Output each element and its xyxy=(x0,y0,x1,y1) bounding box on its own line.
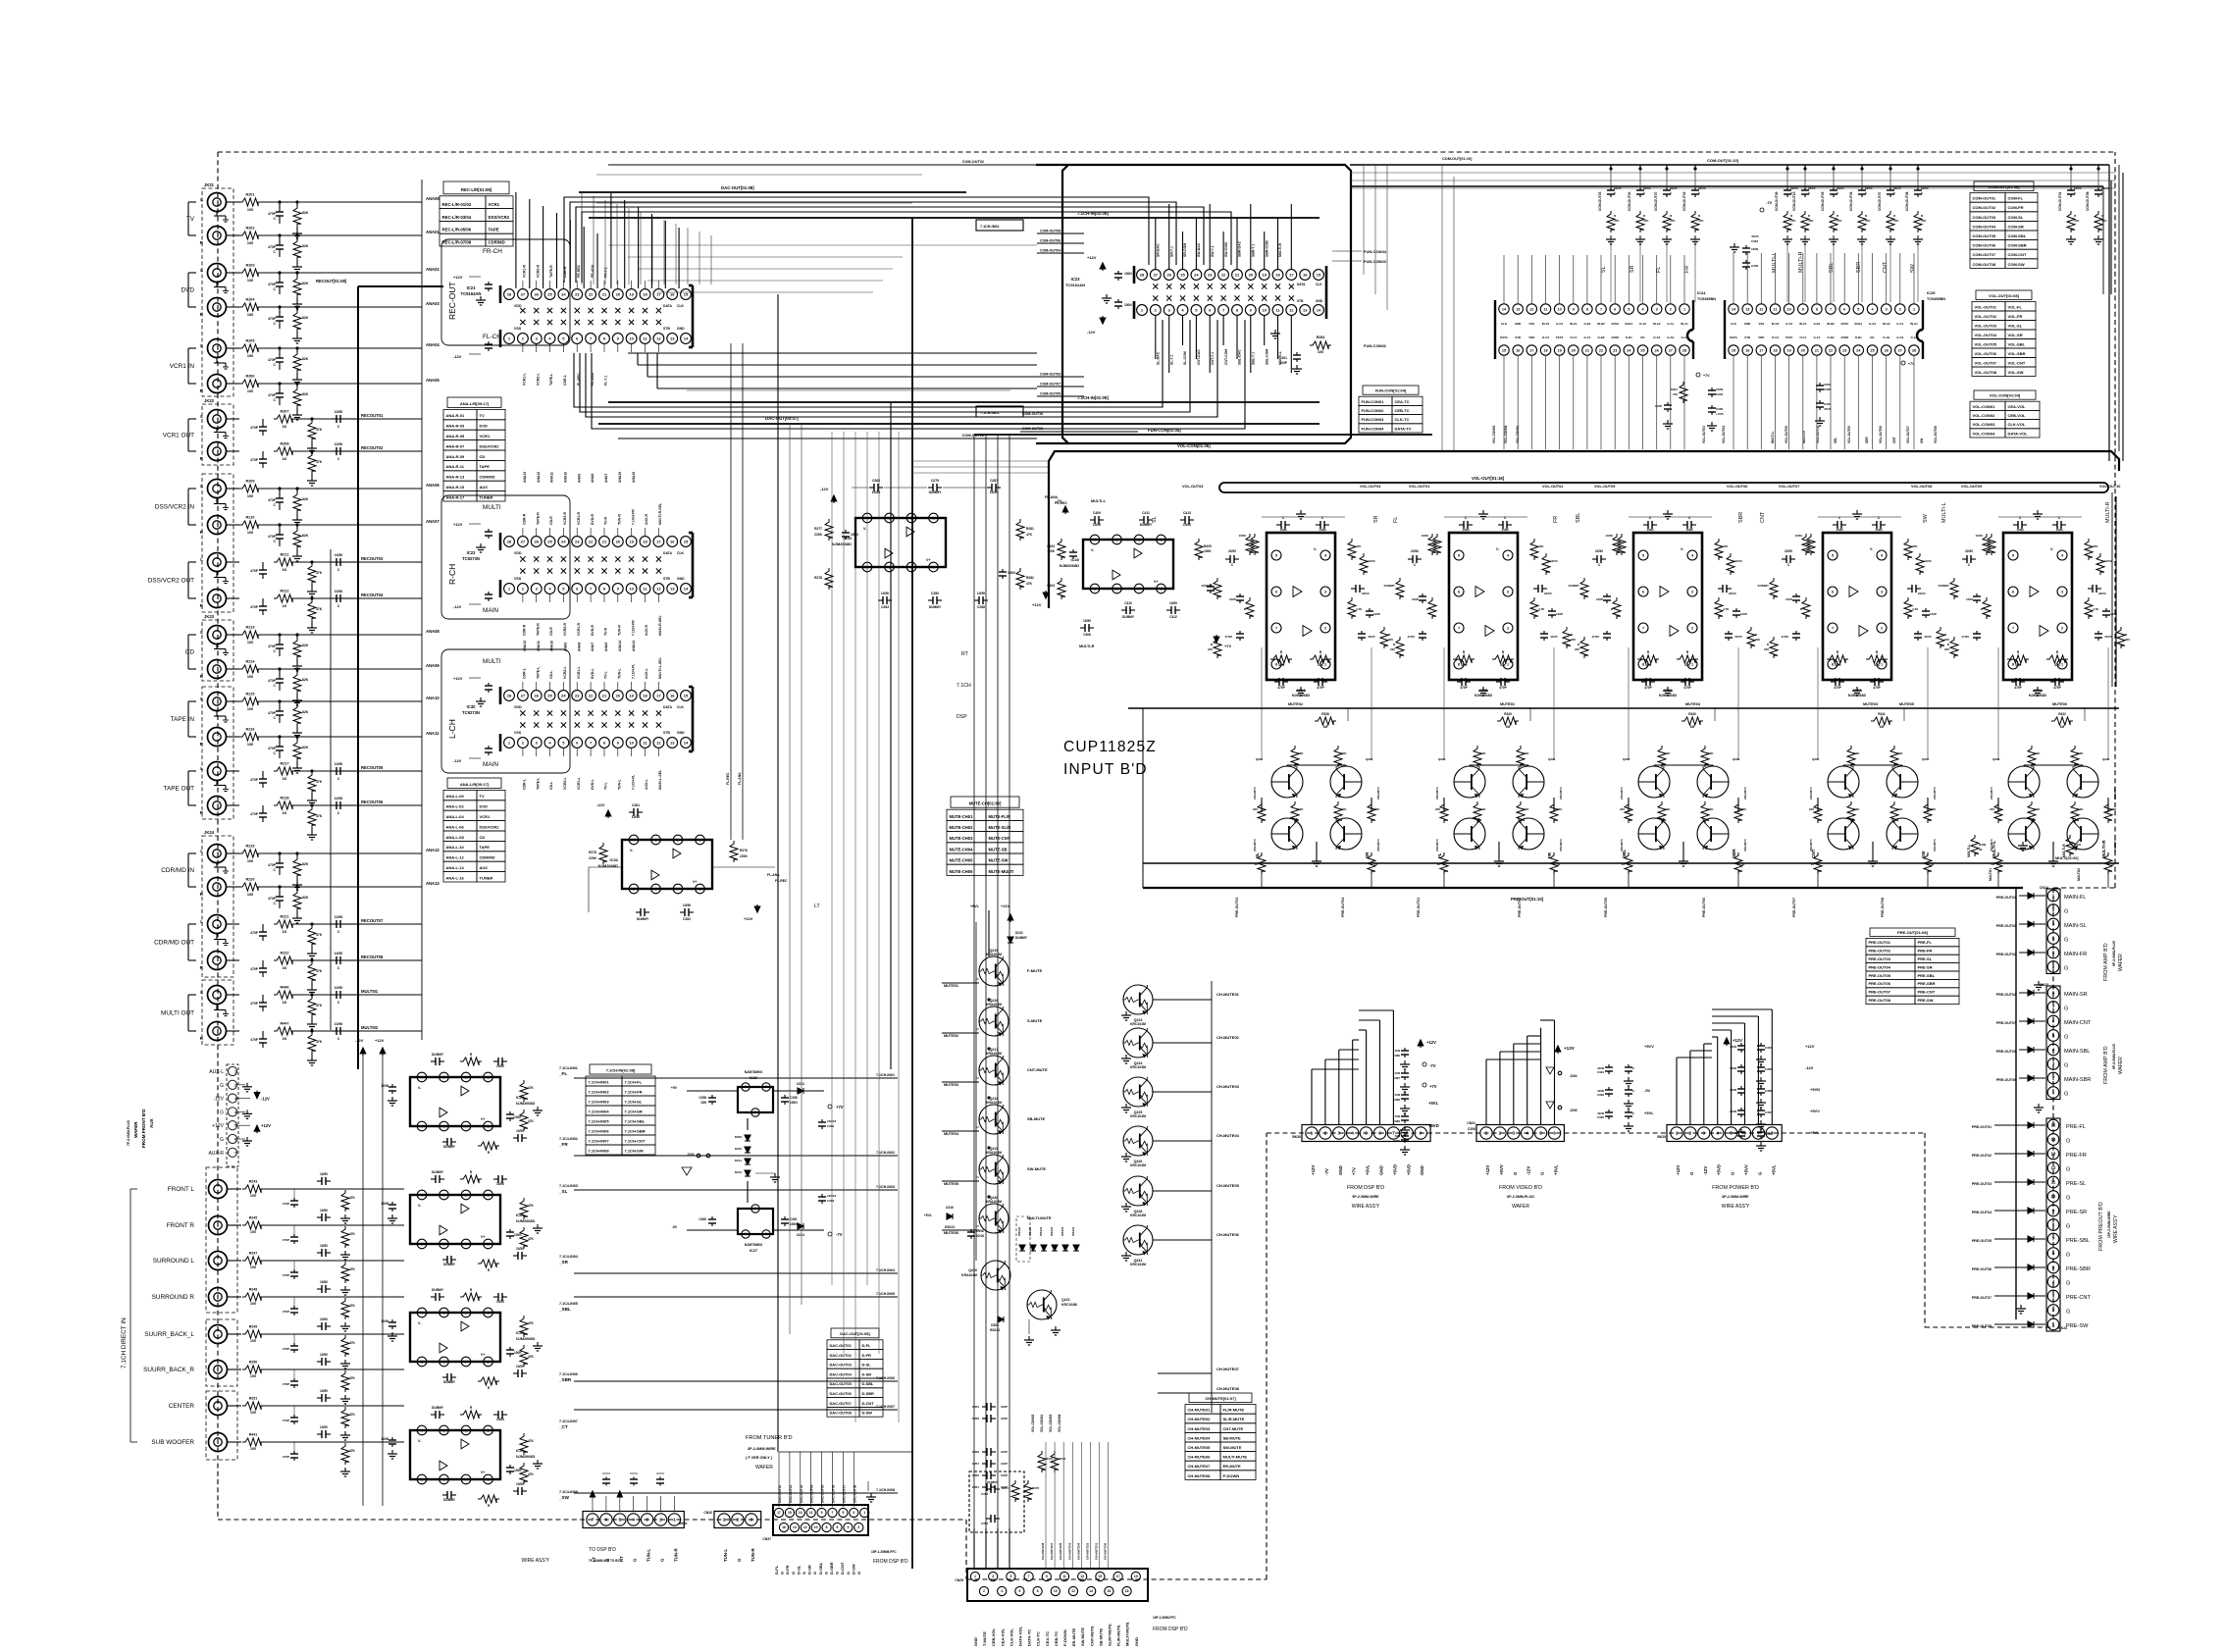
svg-text:1K: 1K xyxy=(283,1001,287,1005)
svg-text:10K: 10K xyxy=(1341,807,1347,811)
power labels DSP fanout xyxy=(1420,1040,1422,1048)
svg-text:PRE-SW: PRE-SW xyxy=(1918,998,1934,1003)
svg-text:FROM VIDEO B'D: FROM VIDEO B'D xyxy=(1499,1185,1542,1191)
svg-text:3: 3 xyxy=(1886,307,1888,311)
regulator IC26 NJM78M06 xyxy=(738,1087,773,1112)
emitter resistors 33 IC41 xyxy=(1994,852,2002,874)
table ANA-R assignment xyxy=(447,397,501,407)
svg-text:CLK: CLK xyxy=(677,551,685,555)
capacitor 470P row ANA05 xyxy=(279,384,281,389)
svg-text:-12V: -12V xyxy=(596,802,605,807)
svg-text:6: 6 xyxy=(1458,590,1460,594)
svg-text:470P: 470P xyxy=(250,605,259,609)
svg-text:VCR1-L: VCR1-L xyxy=(577,776,581,790)
table ANA-L assignment xyxy=(447,778,501,788)
svg-text:1K: 1K xyxy=(283,811,287,815)
svg-text:VOL-OUT08: VOL-OUT08 xyxy=(1975,370,1997,375)
svg-text:7: 7 xyxy=(2012,626,2014,630)
svg-text:470P: 470P xyxy=(283,1273,289,1277)
svg-text:D-SR: D-SR xyxy=(807,1565,812,1575)
svg-text:47K: 47K xyxy=(1614,219,1620,223)
svg-text:R250: R250 xyxy=(249,1361,258,1365)
svg-text:16: 16 xyxy=(670,539,675,543)
svg-text:47K: 47K xyxy=(316,571,323,575)
svg-text:6: 6 xyxy=(1614,307,1616,311)
svg-text:5: 5 xyxy=(421,1124,423,1128)
svg-text:MAIN-R-SEL: MAIN-R-SEL xyxy=(658,615,662,636)
svg-text:ANA-R-15: ANA-R-15 xyxy=(446,485,465,490)
svg-text:O-B1: O-B1 xyxy=(1626,336,1632,339)
svg-text:COM-SL: COM-SL xyxy=(2008,215,2024,220)
svg-text:10: 10 xyxy=(629,740,634,745)
svg-text:+5VL: +5VL xyxy=(970,904,980,908)
svg-text:CH-MUTE05: CH-MUTE05 xyxy=(1216,1183,1240,1188)
svg-text:1: 1 xyxy=(1881,662,1883,666)
svg-text:VOL-OUT07: VOL-OUT07 xyxy=(1779,485,1799,489)
svg-text:21: 21 xyxy=(1815,348,1819,352)
cap C308 22/16 xyxy=(970,1229,972,1232)
svg-text:28: 28 xyxy=(507,539,512,543)
svg-text:TV: TV xyxy=(186,216,195,223)
svg-text:COM-OUT05: COM-OUT05 xyxy=(1821,191,1825,211)
svg-text:11: 11 xyxy=(2051,1180,2056,1185)
svg-text:DAC-OUT04: DAC-OUT04 xyxy=(830,1371,853,1376)
svg-text:10/50: 10/50 xyxy=(1794,534,1802,538)
svg-text:COM-OUT[01:10]: COM-OUT[01:10] xyxy=(1442,157,1473,161)
svg-text:8: 8 xyxy=(487,1124,489,1128)
svg-text:1: 1 xyxy=(723,1518,726,1523)
svg-text:C391: C391 xyxy=(1597,1070,1604,1074)
resistor 82K row ANA09 xyxy=(296,669,298,673)
svg-text:1: 1 xyxy=(863,1511,865,1515)
table 7.1CH-IN assignment xyxy=(590,1064,651,1074)
svg-text:DSS/VCR2: DSS/VCR2 xyxy=(489,215,510,220)
svg-text:17: 17 xyxy=(1529,348,1533,352)
resistor R202 input filter row ANA01 xyxy=(227,234,239,236)
svg-text:CDR-R: CDR-R xyxy=(523,624,527,636)
svg-text:CNT: CNT xyxy=(1883,261,1889,273)
svg-text:6: 6 xyxy=(1018,1589,1020,1593)
svg-text:7.1CH-IN05: 7.1CH-IN05 xyxy=(589,1118,610,1123)
svg-text:SR-COM: SR-COM xyxy=(1183,243,1187,257)
svg-text:FL-REC: FL-REC xyxy=(726,772,730,785)
svg-text:DUMMY: DUMMY xyxy=(987,1480,998,1484)
svg-text:SBL: SBL xyxy=(1622,850,1627,858)
svg-text:FL: FL xyxy=(1437,852,1442,858)
svg-text:ANA11: ANA11 xyxy=(537,641,541,651)
svg-text:DVD-R: DVD-R xyxy=(591,513,595,525)
transistor Q215 KRA104M F-MUTE xyxy=(979,956,1009,986)
svg-text:33: 33 xyxy=(1374,862,1378,866)
right network IC41 xyxy=(2085,539,2093,560)
svg-text:CH-MUTE04: CH-MUTE04 xyxy=(1076,1543,1080,1560)
svg-text:SBL-7.1: SBL-7.1 xyxy=(1252,352,1256,365)
svg-text:CNT-COM: CNT-COM xyxy=(1224,349,1228,365)
svg-text:47K: 47K xyxy=(316,1040,323,1044)
svg-text:ANA-R-09: ANA-R-09 xyxy=(446,454,465,459)
svg-text:27: 27 xyxy=(521,539,526,543)
svg-text:100P: 100P xyxy=(1279,361,1288,365)
svg-text:G: G xyxy=(220,1083,224,1089)
svg-text:VOL-CON04: VOL-CON04 xyxy=(1973,431,1996,436)
bias resistors IC41 cluster xyxy=(2028,746,2036,767)
svg-text:100: 100 xyxy=(247,675,253,679)
svg-text:1: 1 xyxy=(1691,662,1693,666)
svg-text:220: 220 xyxy=(1755,638,1760,642)
svg-text:FROM DSP B'D: FROM DSP B'D xyxy=(1347,1185,1384,1191)
svg-text:L: L xyxy=(200,697,203,701)
svg-text:10K: 10K xyxy=(1341,751,1347,755)
svg-text:19: 19 xyxy=(629,693,634,697)
svg-text:NJM79M06: NJM79M06 xyxy=(745,1243,763,1247)
svg-text:2SC2874: 2SC2874 xyxy=(1376,787,1380,800)
svg-text:MAIN-SBL: MAIN-SBL xyxy=(2064,1049,2090,1055)
svg-text:470P: 470P xyxy=(268,393,277,397)
svg-text:47K: 47K xyxy=(1808,219,1814,223)
svg-text:MULTI-L-SEL: MULTI-L-SEL xyxy=(658,656,662,679)
svg-text:CN23: CN23 xyxy=(2040,983,2048,987)
svg-text:100N: 100N xyxy=(1730,1131,1736,1135)
svg-text:100N: 100N xyxy=(1730,1088,1736,1092)
svg-text:FL/R-MUTE: FL/R-MUTE xyxy=(1116,1625,1121,1646)
resistor R204 input filter row ANA03 xyxy=(227,306,239,308)
svg-text:DAC-OUT06: DAC-OUT06 xyxy=(832,1485,836,1503)
svg-text:3: 3 xyxy=(1115,538,1117,542)
svg-text:1K: 1K xyxy=(283,1037,287,1041)
bus VOL-OUT[01:16] rounded xyxy=(1219,483,2108,492)
svg-text:5: 5 xyxy=(842,1511,844,1515)
capacitor 10/50 row RECOUT04 xyxy=(332,597,336,599)
pin row top IC30 pins 28-15 xyxy=(504,691,515,701)
svg-text:COM-OUT10: COM-OUT10 xyxy=(1792,191,1796,211)
svg-text:IN-C2: IN-C2 xyxy=(1542,322,1550,326)
svg-text:82K: 82K xyxy=(302,862,309,866)
svg-text:C305: C305 xyxy=(1751,264,1759,268)
svg-text:MULTI-MUTE: MULTI-MUTE xyxy=(1125,1622,1130,1646)
resistor R206 input filter row ANA05 xyxy=(227,383,239,385)
mute transistors Q203-Q211 2SC2874 xyxy=(1454,766,1485,798)
svg-text:6: 6 xyxy=(2012,590,2014,594)
svg-text:R245: R245 xyxy=(249,1216,258,1220)
svg-text:PRE-OUT08: PRE-OUT08 xyxy=(1869,998,1891,1003)
svg-text:FROM DSP B'D: FROM DSP B'D xyxy=(873,1559,908,1565)
svg-text:47K: 47K xyxy=(1835,663,1841,667)
RCA jack SUURR_BACK_L xyxy=(209,1325,228,1344)
wires from FUN-CON verticals into CN25 xyxy=(973,1528,975,1569)
mute transistors Q207-Q233 2SC2874 xyxy=(1828,766,1859,798)
table COM-OUT assignment xyxy=(1974,181,2034,191)
diode D216 ISS131 xyxy=(947,1213,953,1219)
svg-text:FR: FR xyxy=(1553,516,1559,523)
svg-text:C368: C368 xyxy=(1765,1132,1772,1136)
svg-text:KRC104M: KRC104M xyxy=(1130,1263,1146,1266)
svg-text:6: 6 xyxy=(888,565,890,569)
svg-text:22: 22 xyxy=(1829,348,1833,352)
svg-text:11: 11 xyxy=(1062,1575,1066,1578)
svg-text:VDD: VDD xyxy=(514,705,522,709)
svg-text:MUTE02: MUTE02 xyxy=(944,1034,958,1038)
resistor R221 output filter row RECOUT07 xyxy=(227,923,239,925)
svg-text:SB-MUTE: SB-MUTE xyxy=(1027,1116,1046,1121)
svg-text:-7V: -7V xyxy=(1429,1063,1436,1068)
svg-text:470P: 470P xyxy=(283,1238,289,1242)
svg-text:TC9162AN: TC9162AN xyxy=(1065,283,1085,287)
svg-text:8: 8 xyxy=(487,1360,489,1364)
svg-text:VOL-CNT: VOL-CNT xyxy=(2008,360,2026,365)
svg-text:470P: 470P xyxy=(1834,686,1841,690)
svg-text:IC30: IC30 xyxy=(467,704,477,709)
svg-text:14: 14 xyxy=(793,1525,797,1529)
svg-text:100: 100 xyxy=(247,859,253,863)
svg-text:GND: GND xyxy=(677,731,685,735)
svg-text:COM-SBR: COM-SBR xyxy=(2008,243,2027,248)
svg-text:2: 2 xyxy=(1689,1131,1692,1136)
svg-text:TUN-L: TUN-L xyxy=(618,779,622,790)
svg-text:IC24: IC24 xyxy=(1697,290,1706,295)
svg-text:33: 33 xyxy=(2111,862,2115,866)
svg-text:PRE-SR: PRE-SR xyxy=(1918,964,1933,969)
svg-text:10/50: 10/50 xyxy=(496,1418,504,1421)
decoupling caps IC21 xyxy=(488,282,490,284)
svg-text:D214: D214 xyxy=(797,1233,804,1237)
svg-text:5: 5 xyxy=(633,887,635,891)
RCA jack pair DVD xyxy=(208,264,227,283)
AUX wafer connector CN? from front board xyxy=(228,1066,236,1075)
svg-text:3: 3 xyxy=(1513,1131,1516,1136)
ground row ANA05 xyxy=(296,411,298,415)
svg-text:7: 7 xyxy=(1830,307,1832,311)
svg-text:ANA15: ANA15 xyxy=(632,472,636,483)
svg-text:MULTI-MUTE: MULTI-MUTE xyxy=(1223,1455,1248,1460)
svg-text:1: 1 xyxy=(1160,538,1162,542)
svg-text:CDR-L: CDR-L xyxy=(523,778,527,790)
svg-text:JK21: JK21 xyxy=(204,182,215,187)
svg-text:DUMMY: DUMMY xyxy=(1569,584,1579,588)
svg-text:CH-MUTE02: CH-MUTE02 xyxy=(1216,1035,1240,1040)
svg-text:MAIN-FL: MAIN-FL xyxy=(2064,895,2086,901)
svg-text:10N: 10N xyxy=(1394,1093,1400,1097)
svg-text:10K: 10K xyxy=(1665,807,1671,811)
svg-text:R248: R248 xyxy=(249,1288,258,1292)
svg-text:G: G xyxy=(220,1137,224,1143)
svg-text:COM-OUT07: COM-OUT07 xyxy=(1040,383,1061,387)
svg-text:7.1CH-SBR: 7.1CH-SBR xyxy=(625,1128,646,1133)
svg-text:100P: 100P xyxy=(1373,612,1380,616)
ground row ANA02 xyxy=(296,300,298,304)
svg-text:100: 100 xyxy=(250,1374,256,1378)
mute resistor 1M IC41 xyxy=(2051,717,2073,725)
svg-text:VCR2-L: VCR2-L xyxy=(563,665,567,679)
capacitor 470P row ANA08 xyxy=(279,635,281,641)
resistor 82K row ANA00 xyxy=(296,202,298,206)
svg-text:3: 3 xyxy=(1881,590,1883,594)
svg-text:R203: R203 xyxy=(245,264,254,268)
svg-text:D213: D213 xyxy=(797,1082,804,1086)
svg-text:IC25: IC25 xyxy=(1927,290,1936,295)
power entry connector BK29 from power board xyxy=(1667,1125,1782,1142)
vertical wires from selector pins up xyxy=(515,192,517,288)
svg-text:470P: 470P xyxy=(268,317,277,321)
svg-text:FROM PREOUT B'D: FROM PREOUT B'D xyxy=(2098,1202,2104,1251)
svg-text:TAPE OUT: TAPE OUT xyxy=(164,786,195,793)
caps above IC41 xyxy=(2013,524,2018,526)
svg-text:10/50: 10/50 xyxy=(320,1425,328,1429)
svg-text:47K: 47K xyxy=(1278,663,1285,667)
svg-text:7: 7 xyxy=(832,1511,834,1515)
svg-text:100P: 100P xyxy=(1655,404,1662,408)
svg-text:10: 10 xyxy=(814,1525,818,1529)
svg-text:VOL-OUT07: VOL-OUT07 xyxy=(1906,426,1910,443)
svg-text:3: 3 xyxy=(2061,590,2063,594)
svg-text:REC-L/R-05/06: REC-L/R-05/06 xyxy=(442,228,472,232)
svg-text:-12V: -12V xyxy=(820,487,829,491)
svg-text:R277: R277 xyxy=(814,527,822,531)
svg-text:V+: V+ xyxy=(926,558,931,562)
7.1ch direct input jacks JK25 JK26 xyxy=(206,1167,237,1313)
svg-text:24: 24 xyxy=(561,693,566,697)
svg-text:1K: 1K xyxy=(283,604,287,608)
svg-text:VSS: VSS xyxy=(514,731,522,735)
svg-text:C282: C282 xyxy=(683,917,691,921)
power fanout wires power board xyxy=(1676,1058,1678,1125)
svg-text:DAC-OUT02: DAC-OUT02 xyxy=(830,1353,853,1358)
pin row bottom IC21 pins 1-14 xyxy=(504,334,515,344)
svg-text:FROM AMP B'D: FROM AMP B'D xyxy=(2103,943,2109,981)
svg-text:REC-L/R[01:08]: REC-L/R[01:08] xyxy=(461,187,492,192)
svg-text:3: 3 xyxy=(442,1311,444,1315)
svg-text:LT: LT xyxy=(814,903,820,909)
svg-text:PRE-OUT03: PRE-OUT03 xyxy=(1996,924,2016,928)
svg-text:MUTE03: MUTE03 xyxy=(1863,702,1878,706)
crossed switch marks IC22 xyxy=(520,556,525,561)
svg-text:CEB-VOL: CEB-VOL xyxy=(2008,413,2027,418)
svg-text:DATA-TC: DATA-TC xyxy=(1027,1629,1032,1646)
svg-text:DATA: DATA xyxy=(1500,336,1509,339)
svg-text:47K: 47K xyxy=(528,1204,535,1208)
ground row ANA07 xyxy=(296,552,298,556)
svg-text:WIRE ASS'Y: WIRE ASS'Y xyxy=(2113,1214,2119,1243)
svg-text:100N: 100N xyxy=(1008,571,1015,575)
svg-text:10K: 10K xyxy=(1480,751,1486,755)
table VOL-OUT assignment xyxy=(1976,290,2032,300)
svg-text:33: 33 xyxy=(1992,862,1995,866)
svg-text:18: 18 xyxy=(1125,1589,1129,1593)
svg-text:2SC2874: 2SC2874 xyxy=(1559,787,1563,800)
svg-text:MAIN-SBR: MAIN-SBR xyxy=(2064,1077,2091,1083)
svg-text:6: 6 xyxy=(234,1138,236,1142)
RCA jack SUURR_BACK_R xyxy=(209,1361,228,1379)
svg-text:470P: 470P xyxy=(250,931,259,935)
svg-text:R276: R276 xyxy=(740,849,748,852)
svg-text:R219: R219 xyxy=(245,845,254,849)
svg-text:+5VL: +5VL xyxy=(1366,1164,1371,1175)
svg-text:DATA: DATA xyxy=(1730,336,1738,339)
svg-text:100: 100 xyxy=(247,279,253,283)
svg-text:-12V: -12V xyxy=(1526,1166,1531,1175)
svg-text:47/25: 47/25 xyxy=(1734,635,1742,639)
svg-text:VCR1-R: VCR1-R xyxy=(577,622,581,636)
svg-text:ANA10: ANA10 xyxy=(550,641,554,651)
svg-text:RECOUT07: RECOUT07 xyxy=(361,918,384,923)
svg-text:11: 11 xyxy=(809,1511,813,1515)
resistor 82K row ANA11 xyxy=(296,737,298,741)
bus 7.1CH-IN lower xyxy=(608,401,1319,403)
svg-text:COM-OUT[01:10]: COM-OUT[01:10] xyxy=(1707,158,1739,163)
svg-text:IC22: IC22 xyxy=(467,550,477,555)
svg-text:26: 26 xyxy=(534,291,539,296)
svg-text:+5VL: +5VL xyxy=(1428,1101,1439,1106)
svg-text:4.7K: 4.7K xyxy=(1723,607,1730,611)
svg-text:_FL: _FL xyxy=(558,1071,567,1076)
svg-text:1: 1 xyxy=(2061,662,2063,666)
svg-text:G-A1: G-A1 xyxy=(1667,322,1674,326)
svg-text:R446: R446 xyxy=(280,986,288,990)
svg-text:3: 3 xyxy=(442,1428,444,1432)
svg-text:4: 4 xyxy=(1526,1131,1528,1136)
svg-text:VOL-OUT04: VOL-OUT04 xyxy=(1722,426,1726,443)
svg-text:10: 10 xyxy=(629,336,634,340)
svg-text:10/50: 10/50 xyxy=(516,1247,524,1251)
svg-text:18: 18 xyxy=(1543,348,1547,352)
svg-text:VOL-OUT01: VOL-OUT01 xyxy=(1975,304,1997,309)
CH-MUTE collector bus xyxy=(1211,981,1213,1413)
svg-text:O-A1: O-A1 xyxy=(1911,336,1918,339)
svg-text:7: 7 xyxy=(1458,626,1460,630)
svg-text:BK29: BK29 xyxy=(1657,1135,1666,1139)
svg-text:-12V: -12V xyxy=(453,354,462,359)
svg-text:22: 22 xyxy=(589,693,594,697)
svg-text:ISS131: ISS131 xyxy=(1039,1226,1043,1236)
svg-text:R301: R301 xyxy=(1671,387,1679,391)
resistor R219 input filter row ANA12 xyxy=(227,852,239,854)
svg-text:220: 220 xyxy=(1944,647,1949,651)
capacitor 470P row ANA12 xyxy=(279,853,281,859)
capacitor 10/50 row RECOUT06 xyxy=(332,804,336,806)
svg-text:FUN-CON[01:04]: FUN-CON[01:04] xyxy=(1148,428,1181,433)
svg-text:PRE-OUT[01:08]: PRE-OUT[01:08] xyxy=(1897,930,1929,935)
svg-text:R440: R440 xyxy=(2074,843,2082,847)
svg-text:ANA-R-01: ANA-R-01 xyxy=(446,413,465,418)
svg-text:100: 100 xyxy=(247,531,253,535)
svg-text:SL-DAC: SL-DAC xyxy=(1157,351,1161,365)
svg-text:26: 26 xyxy=(534,693,539,697)
svg-text:C351: C351 xyxy=(972,1485,980,1489)
decoupling caps IC30 xyxy=(488,683,490,686)
svg-text:C354: C354 xyxy=(972,1405,980,1409)
svg-text:10/50: 10/50 xyxy=(1093,523,1101,527)
svg-text:KRA104M: KRA104M xyxy=(986,1052,1002,1056)
svg-text:V+: V+ xyxy=(693,880,698,884)
schematic frame (dashed board outline) xyxy=(218,151,2115,153)
svg-text:-12V: -12V xyxy=(453,758,462,763)
svg-text:SBR: SBR xyxy=(1865,437,1869,443)
svg-text:VCR1-R: VCR1-R xyxy=(577,511,581,525)
svg-text:10/50: 10/50 xyxy=(516,1129,524,1133)
svg-text:C365: C365 xyxy=(1765,1067,1772,1071)
svg-text:CLK-VOL: CLK-VOL xyxy=(1009,1628,1013,1646)
misc long verticals right of IC23 box xyxy=(1363,165,1365,275)
svg-text:12: 12 xyxy=(2051,1165,2056,1170)
svg-text:5: 5 xyxy=(1628,307,1630,311)
svg-text:PRE-FR: PRE-FR xyxy=(1918,949,1933,954)
svg-text:SR-7.1: SR-7.1 xyxy=(1169,246,1173,257)
svg-text:100: 100 xyxy=(250,1411,256,1415)
svg-text:8: 8 xyxy=(1458,662,1460,666)
ground row ANA10 xyxy=(296,729,298,733)
svg-text:28: 28 xyxy=(507,693,512,697)
svg-text:MULTI-L: MULTI-L xyxy=(1941,502,1947,523)
svg-text:RECOUT06: RECOUT06 xyxy=(361,800,384,804)
